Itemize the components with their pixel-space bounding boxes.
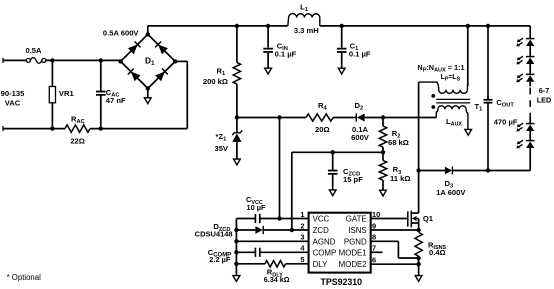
svg-text:4: 4: [300, 244, 305, 253]
svg-text:1: 1: [300, 210, 304, 219]
svg-text:0.1 µF: 0.1 µF: [349, 50, 371, 59]
svg-text:CDSU4148: CDSU4148: [195, 229, 233, 238]
svg-text:6-7: 6-7: [539, 86, 550, 95]
svg-text:DLY: DLY: [313, 260, 329, 269]
svg-text:0.1 µF: 0.1 µF: [275, 50, 297, 59]
svg-text:LED: LED: [537, 96, 552, 105]
svg-text:MODE2: MODE2: [339, 260, 367, 269]
svg-text:TPS92310: TPS92310: [321, 277, 363, 287]
svg-text:90-135: 90-135: [1, 89, 25, 98]
svg-text:8: 8: [372, 233, 376, 242]
svg-text:AGND: AGND: [313, 238, 336, 247]
svg-text:10: 10: [372, 210, 380, 219]
svg-text:*Z1: *Z1: [216, 132, 227, 143]
svg-text:Q1: Q1: [423, 214, 434, 223]
svg-text:LAUX: LAUX: [446, 117, 462, 128]
svg-text:0.5A: 0.5A: [25, 46, 42, 55]
svg-text:ZCD: ZCD: [313, 226, 330, 235]
svg-text:20Ω: 20Ω: [315, 125, 330, 134]
svg-text:6.34 kΩ: 6.34 kΩ: [264, 275, 290, 284]
svg-text:VCC: VCC: [313, 215, 330, 224]
svg-text:T1: T1: [475, 102, 483, 113]
svg-text:D2: D2: [355, 101, 364, 112]
svg-text:5: 5: [300, 255, 304, 264]
svg-text:35V: 35V: [214, 144, 228, 153]
svg-text:L1: L1: [300, 2, 308, 13]
svg-text:10 µF: 10 µF: [247, 203, 267, 212]
svg-text:NP:NAUX = 1:1: NP:NAUX = 1:1: [417, 63, 464, 74]
svg-text:3: 3: [300, 233, 304, 242]
svg-text:1A 600V: 1A 600V: [436, 188, 466, 197]
svg-text:ISNS: ISNS: [348, 226, 366, 235]
svg-text:COUT: COUT: [496, 98, 514, 109]
svg-text:LP=LS: LP=LS: [441, 74, 461, 83]
svg-text:9: 9: [372, 221, 376, 230]
svg-text:11 kΩ: 11 kΩ: [390, 174, 410, 183]
svg-text:6: 6: [372, 256, 376, 265]
svg-text:470 µF: 470 µF: [494, 118, 518, 127]
svg-text:68 kΩ: 68 kΩ: [388, 138, 409, 147]
svg-text:* Optional: * Optional: [7, 273, 42, 282]
svg-text:MODE1: MODE1: [339, 249, 367, 258]
svg-text:47 nF: 47 nF: [106, 96, 126, 105]
svg-text:22Ω: 22Ω: [70, 136, 85, 145]
svg-text:2.2 µF: 2.2 µF: [209, 255, 231, 264]
svg-text:D1: D1: [145, 55, 155, 67]
svg-text:600V: 600V: [351, 133, 370, 142]
svg-text:0.4Ω: 0.4Ω: [429, 248, 446, 257]
svg-text:15 pF: 15 pF: [343, 175, 363, 184]
svg-text:7: 7: [372, 244, 376, 253]
svg-text:VR1: VR1: [59, 89, 75, 98]
svg-text:3.3 mH: 3.3 mH: [294, 26, 319, 35]
svg-text:PGND: PGND: [344, 238, 367, 247]
svg-text:VAC: VAC: [5, 99, 21, 108]
svg-text:COMP: COMP: [313, 249, 337, 258]
svg-text:0.5A 600V: 0.5A 600V: [103, 29, 140, 38]
svg-text:R1: R1: [217, 66, 226, 77]
svg-text:RAC: RAC: [71, 115, 85, 126]
svg-text:GATE: GATE: [346, 215, 367, 224]
svg-text:R4: R4: [318, 101, 327, 112]
svg-text:2: 2: [300, 221, 304, 230]
svg-text:200 kΩ: 200 kΩ: [203, 77, 228, 86]
